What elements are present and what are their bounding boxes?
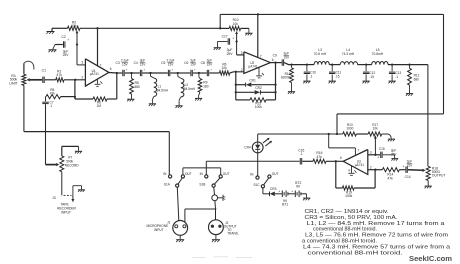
capacitor C10 .1 shunt: [306, 65, 308, 72]
svg-text:OUT: OUT: [223, 172, 230, 176]
ground R11: [288, 91, 295, 93]
wire filter2 drop to R18: [427, 65, 429, 167]
svg-text:LIMIT: LIMIT: [9, 81, 17, 85]
wire C8 to R6: [209, 72, 219, 74]
wire U1 pin7 to bus: [97, 28, 99, 66]
capacitor C15 3uF: [380, 152, 382, 158]
wire C4 to node: [142, 72, 150, 74]
node junction CR2 right: [274, 91, 276, 93]
svg-text:C9: C9: [273, 54, 277, 58]
svg-text:7: 7: [357, 148, 359, 152]
node junction CR1 right: [274, 84, 276, 86]
svg-text:C5: C5: [161, 61, 165, 65]
ground R2 left: [47, 31, 55, 33]
ground C13: [389, 80, 396, 82]
wire C6 to node: [193, 72, 199, 74]
wire node to C6: [178, 72, 191, 74]
svg-text:OUT: OUT: [185, 172, 192, 176]
node junction wiper/C2: [76, 43, 78, 45]
svg-text:+: +: [67, 38, 69, 42]
wire R16 to U3 node: [326, 160, 343, 162]
wire R4 bottom lead to bus: [23, 85, 25, 131]
svg-text:C14: C14: [405, 175, 411, 179]
svg-text:C1: C1: [42, 68, 46, 72]
ground U3 pin4: [348, 172, 354, 174]
wire R4 wiper to C1 (thick): [30, 79, 42, 81]
ground C11: [329, 80, 336, 82]
node junction wiper/C17: [235, 40, 237, 42]
wire mic line corner: [205, 161, 207, 175]
node junction R3/R8: [74, 96, 76, 98]
svg-text:J3: J3: [52, 196, 56, 200]
wire C16 to R16: [302, 160, 313, 162]
ground R17: [388, 138, 395, 140]
wire C3 to node: [125, 72, 132, 74]
op-amp U3 triangle: [343, 150, 368, 175]
op-amp U2 triangle: [244, 52, 271, 74]
svg-text:70.6mH: 70.6mH: [372, 52, 384, 56]
resistor R7 500k RECORD pot: [60, 156, 64, 172]
svg-text:+: +: [402, 164, 404, 168]
ground U2 pin4: [256, 75, 262, 77]
svg-text:47k: 47k: [50, 92, 56, 96]
svg-text:10k: 10k: [222, 66, 228, 70]
svg-text:70.6 mH: 70.6 mH: [314, 52, 327, 56]
wire S1B common to plug: [213, 187, 216, 195]
resistor R4 500k LIMIT pot: [22, 74, 26, 85]
node junction pin3/C15: [374, 154, 376, 156]
svg-text:CR3: CR3: [270, 187, 277, 191]
wire C1 to R1: [45, 79, 56, 81]
node junction C5/L2: [177, 72, 179, 74]
wire U2 feedback right drop: [275, 63, 277, 100]
resistor R2 10k pot: [68, 26, 81, 30]
ground C2: [49, 49, 57, 51]
svg-text:C4: C4: [134, 61, 138, 65]
svg-text:74.3 mH: 74.3 mH: [342, 52, 355, 56]
wire V+ right-side drop: [443, 14, 445, 114]
capacitor C14 3uF: [405, 167, 407, 173]
svg-text:100k: 100k: [255, 105, 262, 109]
wire U3 pin2: [368, 169, 383, 171]
wire CR4 top to supply line: [257, 134, 259, 142]
resistor R15 100k: [250, 98, 266, 102]
capacitor C2 3uF: [63, 41, 65, 47]
svg-text:C2: C2: [61, 35, 65, 39]
ground J3: [78, 189, 85, 191]
wire J2 ground stub: [215, 235, 217, 240]
wire U3 pin4 stub: [351, 166, 353, 173]
wire feedback drop: [116, 73, 118, 99]
wire R7 bottom to J3: [61, 172, 63, 195]
svg-text:.15: .15: [370, 75, 375, 79]
wire C9 to filter2: [284, 63, 307, 65]
wire V+ upper bus to right corner: [220, 13, 443, 15]
wire R10 right lead to ground: [241, 27, 249, 29]
svg-text:100k: 100k: [345, 194, 353, 198]
ground R10: [245, 32, 252, 34]
capacitor C5 2.2uF: [167, 70, 169, 76]
inductor L4 74.3mH: [340, 62, 357, 65]
resistor R16 47k: [313, 159, 326, 163]
node junction C6/R9: [198, 72, 200, 74]
wire R2 wiper to U1 pin3: [76, 45, 78, 65]
node junction U1 out: [116, 72, 118, 74]
node junction pin7 tap: [328, 133, 330, 135]
capacitor C16: [299, 158, 301, 164]
node junction CR2 left: [235, 91, 237, 93]
connector J2 output: [209, 220, 224, 235]
wire V+ drop to CR4 line: [336, 114, 338, 134]
wire plug tab: [218, 197, 223, 199]
op-amp U1 triangle: [85, 59, 109, 86]
wire R18 bottom: [427, 181, 429, 186]
wire S1A common to J1: [177, 187, 179, 220]
svg-text:15V: 15V: [140, 62, 146, 66]
wire arrow into R7 wiper: [46, 164, 57, 166]
svg-text:OUT: OUT: [272, 172, 279, 176]
svg-text:INPUT: INPUT: [154, 228, 164, 232]
LED CR4 arrows: [263, 139, 268, 143]
wire R1 to U1 pin2: [64, 79, 85, 81]
svg-text:S1A: S1A: [164, 182, 171, 186]
capacitor C7 .1: [45, 97, 47, 102]
wire C7 down across bus to R7 wiper: [45, 104, 47, 164]
svg-text:15V: 15V: [190, 62, 196, 66]
wire mic line horizontal: [206, 160, 299, 162]
ground R12: [406, 93, 413, 95]
wire V+ lower bus from R2 to corner x220: [80, 27, 220, 29]
switch S1A lever: [178, 178, 182, 184]
wire R14 to C14: [399, 169, 405, 171]
wire CR4 bottom to S1C: [257, 153, 259, 176]
svg-text:10k: 10k: [373, 127, 379, 131]
capacitor C8 3uF: [206, 70, 208, 76]
diode CR1 1N914: [245, 83, 247, 87]
artifact faint specks: [192, 257, 206, 259]
wire R10 wiper: [235, 31, 238, 34]
svg-text:2: 2: [370, 166, 372, 170]
wire wiper to U2 pin3: [237, 54, 244, 56]
wire bus drop to S1A: [168, 132, 170, 175]
resistor R17 10k pot: [368, 132, 382, 136]
resistor R19 100k: [342, 186, 354, 190]
svg-text:.1: .1: [396, 75, 399, 79]
wire CR1 line: [236, 84, 245, 86]
wire C15 to ground: [383, 154, 395, 156]
capacitor C12 .15 shunt: [365, 65, 367, 72]
svg-text:25V: 25V: [63, 53, 70, 57]
svg-text:6: 6: [110, 67, 112, 71]
ground R18: [425, 185, 432, 187]
wire C14 arrow to R18 wiper: [408, 169, 423, 172]
wire R17 wiper to U3 pin3: [374, 135, 377, 138]
svg-text:OUTPUT: OUTPUT: [432, 174, 446, 178]
node junction U2 pin2: [235, 71, 237, 73]
inductor L5 70.6mH: [372, 62, 388, 65]
svg-text:47k: 47k: [317, 155, 323, 159]
ground J1: [176, 239, 184, 241]
svg-text:1M: 1M: [97, 104, 102, 108]
node junction U1 pin2: [74, 79, 76, 81]
switch S1A contacts: [169, 175, 172, 178]
node junction C11 top: [331, 63, 333, 65]
node junction C12 top: [365, 63, 367, 65]
wire U2 feedback left drop: [235, 72, 237, 100]
resistor R3 1M: [93, 97, 107, 101]
wire C17 left to ground: [218, 41, 228, 43]
svg-text:47k: 47k: [57, 73, 63, 77]
svg-text:C8: C8: [201, 61, 205, 65]
svg-text:BT1: BT1: [282, 203, 288, 207]
wire J3 shield hook: [72, 186, 74, 195]
wire R4 top lead: [23, 63, 25, 74]
node junction C10 top: [306, 63, 308, 65]
svg-text:15V: 15V: [207, 62, 213, 66]
wire U2 pin4 stub: [258, 67, 260, 75]
resistor R13 1000: [343, 132, 357, 136]
resistor R8 47k: [46, 95, 61, 99]
svg-text:8200Ω: 8200Ω: [281, 76, 291, 80]
svg-text:.15: .15: [335, 74, 340, 78]
svg-text:RECORD: RECORD: [65, 164, 80, 168]
resistor R9 180 shunt: [198, 73, 200, 77]
capacitor C4 3uF: [139, 70, 141, 76]
svg-text:CR4: CR4: [244, 146, 251, 150]
ground C17: [214, 47, 221, 49]
svg-text:µA741: µA741: [90, 72, 99, 76]
wire C5 to node: [170, 72, 177, 74]
wire U3 feedback: [335, 161, 337, 188]
wire J1-J2 jog: [185, 208, 216, 210]
svg-text:C3: C3: [115, 61, 119, 65]
svg-text:47k: 47k: [387, 176, 393, 180]
svg-text:15V: 15V: [284, 56, 290, 60]
svg-text:INPUT: INPUT: [61, 211, 71, 215]
node junction U2 out: [274, 61, 276, 63]
wire R4 top-to-wiper hook: [24, 61, 34, 69]
diode CR3: [269, 192, 271, 197]
wire R6 to U2 pin2: [230, 72, 244, 73]
svg-text:84.5mH: 84.5mH: [184, 87, 196, 91]
wire filter1 segment: [117, 72, 122, 74]
svg-text:.1: .1: [310, 74, 313, 78]
svg-text:680: 680: [414, 77, 419, 81]
ground L2: [176, 105, 183, 107]
wire S1C common down: [262, 188, 264, 194]
wire R2 wiper arrow: [76, 30, 79, 33]
resistor R14 47k: [382, 168, 399, 172]
capacitor C1: [42, 77, 44, 83]
wire U3 pin3: [368, 154, 380, 156]
wire R17 right to ground: [382, 134, 392, 139]
svg-text:S1C: S1C: [253, 183, 260, 187]
capacitor C17 3uF: [227, 38, 229, 44]
capacitor C13 .1 shunt: [391, 65, 393, 72]
wire BT2 to ground: [301, 193, 307, 195]
inductor L1 84.5mH shunt: [150, 73, 152, 76]
svg-text:µA741: µA741: [355, 163, 364, 167]
svg-text:2: 2: [241, 68, 243, 72]
svg-text:7: 7: [100, 63, 102, 67]
battery BT1 9V: [281, 191, 283, 198]
ground R7 top: [75, 150, 82, 152]
connector plug circle: [212, 195, 218, 201]
ground U1 pin4: [95, 83, 101, 85]
switch S1B contacts: [205, 175, 208, 178]
svg-text:4: 4: [348, 169, 350, 173]
svg-text:TRANS.: TRANS.: [227, 232, 239, 236]
resistor R12 680 shunt: [409, 65, 411, 69]
wire CR3 to BT1: [275, 193, 283, 195]
svg-text:.1: .1: [49, 104, 52, 108]
wire V+ bus riser jog: [219, 14, 221, 28]
capacitor C11 .15 shunt: [331, 65, 333, 72]
svg-text:15V: 15V: [407, 163, 413, 167]
inductor L2 84.5mH shunt: [177, 73, 179, 76]
connector J1 microphone input: [173, 221, 188, 236]
svg-text:15V: 15V: [122, 62, 128, 66]
svg-text:680: 680: [134, 85, 140, 89]
capacitor C9 3uF: [281, 59, 283, 65]
svg-text:6: 6: [340, 156, 342, 160]
svg-text:15V: 15V: [168, 62, 174, 66]
svg-text:CR2: CR2: [255, 86, 262, 90]
inductor L3 70.6mH: [314, 62, 329, 65]
svg-text:+: +: [291, 190, 293, 194]
svg-text:+: +: [278, 190, 280, 194]
wire node to C4: [132, 72, 140, 74]
resistor R18 500ohm pot: [426, 166, 430, 180]
switch S1B lever: [214, 178, 220, 184]
node junction R12 top: [408, 63, 410, 65]
svg-text:180: 180: [203, 84, 209, 88]
node junction U3 out: [335, 160, 337, 162]
wire L3 to C11: [329, 64, 340, 66]
ground R5: [127, 98, 134, 100]
wire V+ return left at y114: [337, 113, 444, 115]
diode CR2 1N914: [255, 90, 260, 94]
svg-text:10k: 10k: [233, 22, 239, 26]
capacitor C3 2.2uF: [122, 70, 124, 76]
ground battery: [303, 197, 310, 199]
wire U1 pin4 stub: [97, 79, 99, 84]
resistor R6 10k: [219, 71, 229, 75]
svg-text:conventional 88-mH toroid.: conventional 88-mH toroid.: [308, 250, 403, 256]
node junction V+ / U1 pin7: [96, 27, 98, 29]
resistor R11 8200 shunt: [291, 65, 293, 68]
node junction bus tap: [336, 133, 338, 135]
resistor R1 47k: [56, 78, 64, 82]
node junction bus corner R10: [219, 27, 221, 29]
ground L1: [149, 103, 156, 105]
wire feedback bottom: [107, 98, 117, 100]
wire plug to J2: [214, 201, 217, 209]
node junction C3/R5: [130, 72, 132, 74]
wire to L3: [307, 64, 314, 66]
wire R13 to R17: [356, 133, 368, 135]
wire node to C5: [151, 72, 168, 74]
node junction V+ / U2 pin7: [257, 13, 259, 15]
svg-text:2: 2: [81, 75, 83, 79]
svg-text:µA741: µA741: [248, 64, 257, 68]
ground C12: [363, 80, 370, 82]
wire R10 left lead: [220, 27, 229, 29]
svg-text:+: +: [232, 36, 234, 40]
wire BT1 to BT2: [288, 193, 295, 195]
wire R15 line: [236, 99, 250, 101]
svg-text:1000: 1000: [346, 127, 353, 131]
svg-text:C15: C15: [379, 147, 385, 151]
LED CR4: [252, 142, 263, 153]
capacitor C6 3uF: [190, 70, 192, 76]
svg-text:6: 6: [272, 58, 274, 62]
node junction C4/L1: [149, 72, 151, 74]
wire U1 output: [109, 72, 117, 75]
battery BT2 9V: [294, 191, 296, 198]
ground J2: [212, 239, 220, 241]
wire R3 to pin2 node: [75, 98, 93, 100]
wire C2 left lead: [55, 44, 63, 46]
svg-text:84.5mH: 84.5mH: [157, 88, 169, 92]
wire node to C8: [199, 72, 207, 74]
node junction CR1 left: [235, 84, 237, 86]
svg-text:3: 3: [81, 61, 83, 65]
node junction C13 top: [391, 63, 393, 65]
svg-text:10k: 10k: [71, 24, 77, 28]
svg-text:3: 3: [370, 151, 372, 155]
wire J1 ground stub: [179, 235, 181, 239]
svg-text:+: +: [377, 155, 379, 159]
wire U2 pin7 to bus: [257, 14, 259, 57]
ground C10: [303, 80, 310, 82]
wire S1A-S1B out jog: [182, 168, 184, 175]
svg-text:.1: .1: [300, 152, 303, 156]
wire R8 leads: [61, 96, 75, 98]
wire L5 to corner: [388, 64, 428, 66]
switch S1C lever: [264, 178, 269, 185]
node junction R11 top: [290, 63, 292, 65]
svg-text:25V: 25V: [391, 152, 397, 156]
wire CR2 line: [236, 91, 255, 93]
wire input bus y131.6: [24, 131, 169, 133]
wire U2 output: [270, 62, 281, 64]
ground plug (small): [222, 195, 224, 201]
resistor R10 10k pot: [229, 26, 240, 30]
ground C15: [391, 158, 398, 160]
svg-text:C6: C6: [184, 61, 188, 65]
svg-text:CR1: CR1: [249, 79, 256, 83]
wire U3 pin7 jog: [328, 134, 330, 148]
svg-text:25V: 25V: [227, 52, 234, 56]
switch S1C contacts: [256, 176, 259, 179]
resistor R5 680 shunt: [131, 73, 133, 79]
svg-text:C17: C17: [222, 34, 228, 38]
node junction jog: [215, 208, 217, 210]
ground R9: [195, 97, 202, 99]
svg-text:SeekIC.com: SeekIC.com: [409, 254, 452, 263]
svg-text:7: 7: [260, 55, 262, 59]
node junction pin2/R14: [374, 169, 376, 171]
svg-text:3: 3: [241, 51, 243, 55]
wire L4 to C12: [358, 64, 372, 66]
wire R2 left lead to ground: [52, 27, 68, 29]
wire R7 top lead: [61, 146, 63, 156]
svg-text:S1B: S1B: [199, 182, 205, 186]
